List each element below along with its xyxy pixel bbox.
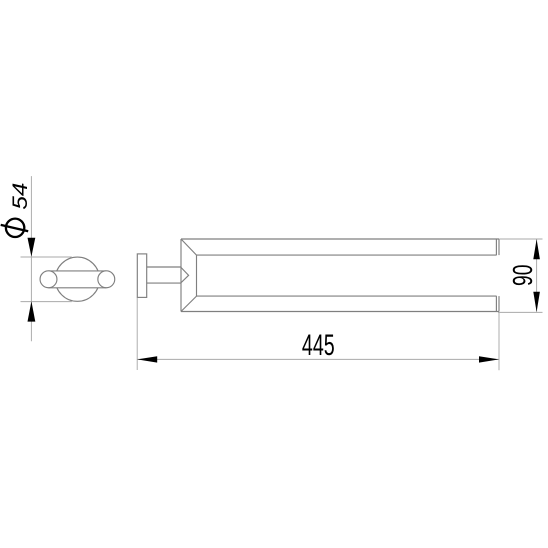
dimension line	[30, 176, 32, 341]
svg-text:90: 90	[507, 265, 538, 286]
extension line left	[136, 298, 138, 370]
bottom outer edge	[181, 311, 499, 313]
fork back vertical	[180, 239, 182, 312]
hub inner vertical	[196, 255, 198, 296]
extension line bottom	[498, 311, 543, 313]
dimension line	[536, 239, 538, 312]
top arm end cap outer line	[498, 239, 500, 255]
big circle (wall rosette Ø54)	[55, 257, 99, 301]
label Ø symbol	[1, 219, 29, 237]
svg-text:445: 445	[302, 329, 335, 362]
stem pointed tip	[181, 267, 189, 283]
bar top edge	[49, 270, 107, 272]
svg-text:54: 54	[9, 183, 32, 210]
extension line top	[21, 256, 72, 258]
bottom arm inner edge	[197, 295, 497, 297]
arrowhead down	[28, 238, 36, 257]
stem top edge	[147, 266, 181, 268]
right bar end circle	[98, 271, 115, 288]
bottom arm end cap outer line	[498, 296, 500, 311]
top outer edge	[181, 238, 499, 240]
bar bottom edge	[49, 287, 107, 289]
arrowhead left	[137, 356, 157, 362]
bar body (stadium band) white fill over rosette	[49, 271, 107, 287]
bottom arm end cap inner line	[495, 296, 497, 311]
arrowhead down	[533, 292, 540, 312]
extension line bottom	[21, 301, 72, 303]
wall plate	[137, 254, 146, 298]
dimension line	[137, 358, 499, 360]
arrowhead up	[28, 301, 36, 321]
extension line right	[498, 312, 500, 370]
left bar end circle	[40, 271, 57, 288]
top arm end cap inner line	[495, 239, 497, 255]
chamfer diagonal bottom-left	[181, 296, 197, 311]
stem bottom edge	[147, 282, 181, 284]
chamfer diagonal top-left	[181, 239, 197, 255]
extension line top	[499, 238, 542, 240]
top arm inner edge	[197, 254, 497, 256]
arrowhead right	[479, 356, 499, 362]
arrowhead up	[533, 239, 540, 259]
